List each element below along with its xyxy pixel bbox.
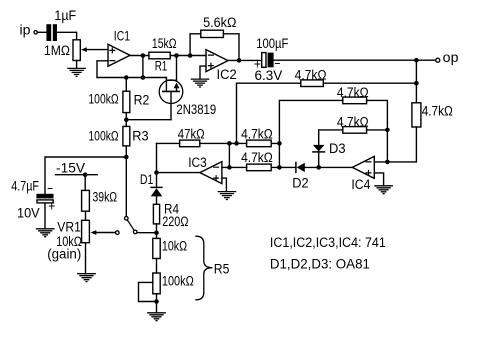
wire top 4.7k row (237, 82, 417, 84)
ground R5 (148, 313, 165, 321)
wire row4 47k (157, 141, 282, 146)
resistor R5.6k feedback (190, 30, 241, 63)
wire IC1 output (130, 55, 149, 57)
resistor 4.7k right vertical (412, 103, 421, 127)
svg-text:D1: D1 (140, 172, 154, 187)
svg-text:D1,D2,D3: OA81: D1,D2,D3: OA81 (270, 257, 370, 272)
svg-text:1µF: 1µF (54, 8, 76, 23)
ground pot (68, 68, 85, 76)
svg-text:−: − (47, 181, 53, 196)
ground IC3 (218, 192, 235, 200)
wire right 4.7k bottom to IC4 - (374, 127, 416, 164)
node op terminal (436, 58, 440, 62)
wire IC2 + to ground (200, 66, 206, 79)
wire IC1 inverting loop (97, 61, 166, 78)
diode D2 (296, 163, 305, 173)
svg-text:100kΩ: 100kΩ (88, 91, 118, 106)
resistor R5b 100k preset (139, 273, 161, 313)
svg-text:6.3V: 6.3V (255, 68, 283, 83)
svg-text:220Ω: 220Ω (162, 214, 188, 229)
capacitor C2 100uF (262, 53, 274, 68)
wire C to pot (57, 32, 77, 40)
wire ip to C in (38, 31, 47, 33)
wire row5 IC3 inverting (222, 165, 296, 170)
svg-text:47kΩ: 47kΩ (178, 127, 205, 142)
wire R1 to IC2 (170, 55, 206, 57)
svg-text:IC3: IC3 (188, 155, 207, 170)
svg-text:15kΩ: 15kΩ (152, 36, 177, 51)
ground C3 (37, 229, 54, 237)
switch S1 (125, 217, 157, 234)
svg-text:IC2: IC2 (217, 67, 237, 82)
wire IC4 + to ground (374, 173, 383, 186)
svg-text:5.6kΩ: 5.6kΩ (203, 15, 236, 30)
resistor VR 1M pot body (73, 40, 80, 61)
wire C2 to op (274, 58, 436, 63)
capacitor C3 4.7uF (36, 194, 53, 229)
svg-text:VR1: VR1 (57, 220, 81, 235)
svg-text:2N3819: 2N3819 (176, 102, 216, 117)
svg-text:1MΩ: 1MΩ (44, 43, 70, 58)
svg-text:+: + (48, 199, 55, 214)
svg-text:ip: ip (20, 22, 31, 37)
ground IC2 (191, 79, 208, 87)
wire IC3 + to ground (222, 178, 227, 191)
capacitor 1uF (46, 24, 57, 41)
wire pot bottom (76, 61, 78, 69)
power -15V rail (45, 155, 129, 194)
resistor 4.7k top row (301, 80, 324, 87)
op-amp IC1 (108, 44, 130, 66)
diode D3 (313, 130, 325, 168)
svg-text:100kΩ: 100kΩ (88, 128, 118, 143)
svg-text:IC4: IC4 (351, 177, 370, 192)
node ip terminal (34, 31, 37, 34)
resistor R5a 10k (153, 233, 160, 273)
op-amp IC3 (200, 162, 222, 184)
svg-text:4.7µF: 4.7µF (11, 179, 39, 194)
wire op node down (414, 60, 419, 103)
op-amp IC4 (352, 156, 374, 178)
svg-text:D2: D2 (292, 175, 308, 190)
op-amp IC2 (206, 50, 228, 72)
svg-text:4.7kΩ: 4.7kΩ (241, 150, 273, 165)
svg-text:R2: R2 (134, 93, 150, 108)
svg-text:R1: R1 (155, 58, 168, 73)
resistor 4.7k row4 (247, 140, 272, 147)
svg-text:4.7kΩ: 4.7kΩ (337, 114, 369, 129)
resistor R2 100k (123, 75, 130, 120)
resistor 47k (180, 140, 200, 147)
svg-text:4.7kΩ: 4.7kΩ (337, 85, 369, 100)
wire pot wiper arrow (81, 47, 108, 52)
svg-text:op: op (443, 50, 459, 65)
node output-feedback vertical (141, 53, 146, 80)
brace R5 (196, 236, 212, 300)
wire R3 to switch (125, 157, 127, 216)
ground IC4 (375, 186, 392, 194)
wire row3 (319, 129, 388, 131)
resistor R3 100k (123, 120, 130, 157)
wire left vertical to 47k node (236, 83, 238, 143)
wire IC2 out to C2 (228, 59, 262, 61)
resistor R 39k (82, 175, 90, 221)
resistor 4.7k row2 (343, 97, 367, 104)
svg-text:4.7kΩ: 4.7kΩ (422, 104, 453, 119)
svg-text:(gain): (gain) (47, 247, 81, 262)
svg-text:100kΩ: 100kΩ (162, 273, 194, 288)
wire source to R2R3 node (124, 117, 171, 122)
svg-text:R3: R3 (132, 128, 148, 143)
svg-text:4.7kΩ: 4.7kΩ (241, 127, 273, 142)
ground VR1 (78, 274, 95, 282)
resistor R4 220 (153, 204, 159, 235)
svg-text:IC1: IC1 (114, 29, 130, 44)
resistor VR1 10k pot (82, 220, 116, 273)
wire row4-row5 vertical (228, 143, 230, 167)
svg-text:R5: R5 (214, 261, 230, 276)
wire D2 to IC4 out (305, 165, 353, 170)
svg-text:10V: 10V (17, 205, 40, 220)
transistor Q1 2N3819 (159, 56, 183, 120)
node wiper terminal (116, 231, 120, 235)
node R1 out junctions (174, 53, 192, 58)
resistor 4.7k row5 (247, 164, 272, 171)
svg-text:4.7kΩ: 4.7kΩ (295, 67, 327, 82)
svg-text:100µF: 100µF (256, 36, 288, 51)
power -15V label line (56, 172, 98, 177)
wire row2 (279, 100, 389, 167)
diode D1 (151, 173, 163, 205)
wire IC3 out to D1 node (154, 170, 200, 175)
svg-text:D3: D3 (329, 141, 346, 156)
resistor 4.7k row3 (343, 127, 367, 134)
wire 47k corner down to D1 node (156, 143, 158, 172)
svg-text:-15V: -15V (56, 160, 85, 175)
svg-text:10kΩ: 10kΩ (162, 239, 187, 254)
resistor R1 15k (149, 52, 170, 59)
svg-text:IC1,IC2,IC3,IC4: 741: IC1,IC2,IC3,IC4: 741 (270, 235, 386, 250)
svg-text:39kΩ: 39kΩ (93, 189, 118, 204)
